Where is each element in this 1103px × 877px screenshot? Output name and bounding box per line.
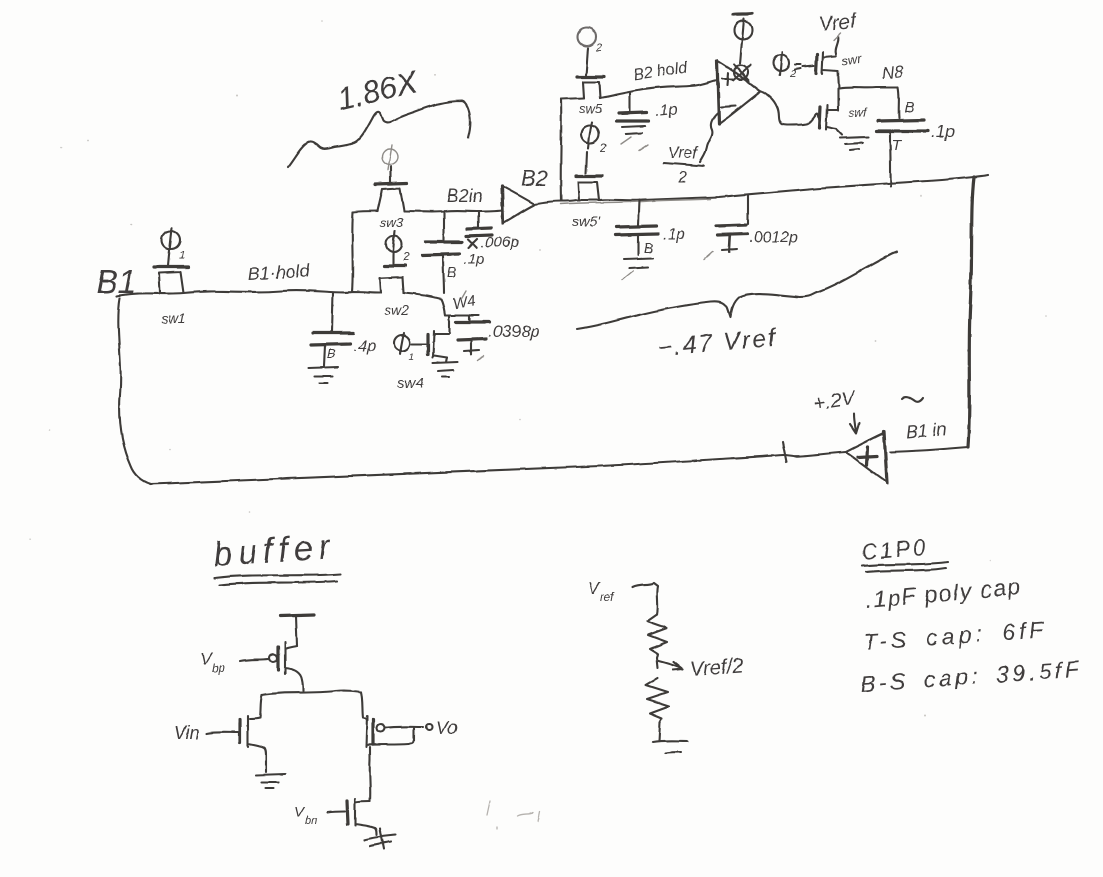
svg-text:B2in: B2in bbox=[447, 186, 483, 206]
capacitor T/B .1p label B bbox=[904, 99, 914, 116]
node B1 label bbox=[96, 263, 136, 300]
svg-text:Vin: Vin bbox=[174, 723, 200, 743]
capacitor .4p plates bbox=[311, 333, 353, 345]
cross mark x bbox=[468, 239, 477, 248]
svg-text:ref: ref bbox=[600, 590, 616, 604]
capacitor .1p on B2hold plates bbox=[616, 112, 649, 121]
wire cap bottom to long wire bbox=[890, 143, 891, 186]
svg-text:Vo: Vo bbox=[436, 718, 457, 738]
node label g bbox=[447, 264, 456, 280]
phi1 clock symbol at SW4 bbox=[394, 333, 415, 363]
svg-text:bp: bp bbox=[212, 661, 226, 675]
svg-text:1.86X: 1.86X bbox=[334, 64, 422, 117]
svg-text:swf: swf bbox=[849, 106, 869, 120]
wire SW5 row to op-amp bbox=[561, 80, 717, 99]
capacitor .1p below long wire plates bbox=[616, 226, 658, 235]
ground under SW4 bbox=[433, 358, 458, 377]
net label W4 bbox=[452, 291, 477, 313]
op-amp output wire squiggle bbox=[760, 91, 819, 125]
wire into comparator bbox=[890, 447, 968, 452]
label Vref/2 bbox=[664, 145, 704, 186]
wire Vref down to SWR bbox=[834, 33, 841, 54]
capacitor .0012p plates bbox=[716, 225, 747, 235]
value label .1p bbox=[655, 101, 679, 120]
mid node wire bbox=[657, 658, 658, 668]
note T-S cap 6fF bbox=[863, 616, 1049, 655]
note .1pF poly cap bbox=[864, 573, 1023, 613]
capacitor .4p bottom label B bbox=[327, 346, 336, 361]
SWR gate wire with ticks bbox=[795, 64, 814, 69]
wire M3 source down bbox=[369, 747, 372, 801]
transistor SW1 gate bbox=[154, 255, 189, 267]
wire right side vertical bbox=[968, 175, 988, 447]
label 1.86X gain annotation bbox=[334, 64, 422, 117]
pmos bubble M1 bbox=[269, 654, 277, 662]
SW2 label bbox=[384, 302, 409, 318]
transistor M3 body bbox=[366, 716, 414, 747]
svg-text:B2: B2 bbox=[521, 166, 548, 191]
transistor SW4 body sideways bbox=[433, 331, 448, 358]
wire SWR to node bbox=[838, 71, 839, 88]
transistor SW3 body bbox=[377, 188, 404, 211]
capacitor T/B plates bbox=[876, 120, 928, 131]
label Vin bbox=[174, 723, 200, 743]
svg-text:B: B bbox=[327, 346, 336, 361]
transistor M1 body bbox=[285, 642, 303, 691]
net label N8 bbox=[881, 62, 905, 83]
squiggle curve under 1.86X bbox=[288, 101, 470, 167]
capacitor .1p mid bottom wire bbox=[443, 255, 444, 293]
svg-text:2: 2 bbox=[402, 250, 410, 264]
wire junction down to SW4 bbox=[448, 315, 450, 333]
capacitor .1p on B2hold stem bbox=[629, 92, 631, 111]
SW2 gate bbox=[384, 257, 405, 266]
buffer B2 triangle bbox=[502, 186, 534, 223]
svg-text:1: 1 bbox=[179, 250, 185, 262]
label +.2V with arrow bbox=[812, 387, 859, 433]
svg-text:sw3: sw3 bbox=[380, 215, 404, 230]
op-amp minus wire to Vref/2 bbox=[700, 112, 719, 162]
svg-text:.006p: .006p bbox=[481, 234, 519, 251]
note B-S cap 39.5fF bbox=[860, 656, 1084, 697]
svg-text:Vref: Vref bbox=[668, 145, 699, 162]
wire SW2 to W4 node bbox=[404, 293, 479, 315]
capacitor .1p mid stem bbox=[443, 212, 445, 240]
crossed bubble on op-amp bbox=[733, 64, 750, 81]
value label .0012p bbox=[749, 229, 798, 246]
wire B2 long net to right bbox=[534, 177, 974, 204]
capacitor W4 .0398p plates bbox=[456, 315, 489, 340]
value label .1p right bbox=[931, 122, 955, 141]
transistor M3 gate bbox=[371, 719, 374, 744]
phi1 faint at SW3 bbox=[382, 145, 398, 170]
capacitor .006p stem and plates bbox=[466, 211, 492, 236]
SW4 gate bbox=[412, 334, 428, 355]
comparator triangle B1in bbox=[846, 431, 887, 483]
svg-text:sw5': sw5' bbox=[572, 213, 601, 229]
svg-text:.1pF poly cap: .1pF poly cap bbox=[864, 573, 1023, 613]
wire SWF drain up to node bbox=[837, 88, 839, 110]
phi2 clock at SW5' bbox=[581, 122, 607, 155]
svg-text:bn: bn bbox=[305, 815, 317, 827]
wire Vbn to gate bbox=[327, 811, 345, 812]
ground under M2 bbox=[256, 774, 285, 788]
svg-text:B: B bbox=[644, 240, 653, 256]
svg-text:1: 1 bbox=[409, 352, 415, 363]
svg-text:.4p: .4p bbox=[354, 338, 376, 355]
ground under divider bbox=[652, 741, 687, 753]
transistor SW5' body bbox=[578, 182, 599, 200]
svg-text:2: 2 bbox=[599, 141, 607, 155]
ground hatch under cap bbox=[621, 126, 648, 151]
op-amp U1 triangle bbox=[717, 60, 760, 124]
svg-text:2: 2 bbox=[677, 169, 687, 186]
wire node to M3 bbox=[361, 692, 367, 719]
transistor M2 gate bbox=[238, 719, 241, 743]
pmos bubble M3 bbox=[377, 724, 385, 732]
SW1 label bbox=[161, 310, 186, 326]
cap label B bbox=[638, 235, 653, 256]
svg-text:sw4: sw4 bbox=[397, 375, 424, 392]
curly brace bbox=[577, 252, 897, 329]
net label B1-hold bbox=[247, 261, 311, 284]
capacitor .0012p stem bbox=[747, 195, 749, 224]
tick mark on wire bbox=[782, 442, 786, 462]
svg-text:.0012p: .0012p bbox=[749, 229, 798, 246]
transistor SWR body sideways bbox=[822, 52, 838, 74]
phi-bar clock above op-amp bbox=[733, 14, 753, 41]
net label B2 hold bbox=[632, 59, 689, 84]
comparator output wire bbox=[783, 452, 846, 456]
resistor R2 zigzag bbox=[646, 678, 669, 722]
faint scribble marks bbox=[487, 801, 540, 829]
buffer mid node wire bbox=[262, 691, 361, 695]
value label .0398p bbox=[488, 322, 540, 341]
buffer section title bbox=[212, 527, 341, 585]
svg-text:.1p: .1p bbox=[931, 122, 955, 141]
ground under SWF bbox=[836, 129, 868, 150]
comparator plus sign bbox=[858, 447, 877, 465]
label Vo bbox=[436, 718, 457, 738]
mark under .0012p bbox=[704, 235, 737, 260]
label B1 in bbox=[905, 419, 947, 442]
svg-text:buffer: buffer bbox=[212, 527, 337, 573]
net label Vref top bbox=[818, 10, 859, 36]
svg-text:T-S cap: 6fF: T-S cap: 6fF bbox=[863, 616, 1049, 655]
value label .4p bbox=[354, 338, 376, 355]
arrow to Vref/2 bbox=[659, 661, 683, 670]
Vo terminal circle bbox=[426, 724, 432, 730]
wire Vref to resistor bbox=[632, 583, 658, 614]
wire Vbp to gate bbox=[240, 659, 268, 661]
svg-text:.1p: .1p bbox=[655, 101, 679, 120]
svg-text:sw5: sw5 bbox=[579, 101, 603, 116]
ground scribble under M4 bbox=[364, 829, 396, 849]
svg-text:T: T bbox=[892, 137, 903, 154]
svg-text:N8: N8 bbox=[881, 62, 905, 83]
phi2 clock at SW5 top bbox=[578, 28, 602, 75]
wire Vin to gate bbox=[207, 732, 238, 733]
svg-text:C1P0: C1P0 bbox=[860, 534, 929, 565]
SW5' gate bbox=[576, 152, 602, 176]
transistor SW3 gate bbox=[375, 167, 407, 184]
svg-text:Vref: Vref bbox=[818, 10, 859, 36]
SW5 label bbox=[579, 101, 603, 116]
wire B1 to SW2 bbox=[117, 291, 380, 296]
transistor M1 gate bbox=[276, 647, 279, 670]
capacitor .4p stem bbox=[332, 293, 333, 332]
svg-text:B-S cap: 39.5fF: B-S cap: 39.5fF bbox=[860, 656, 1084, 697]
svg-text:+.2V: +.2V bbox=[812, 387, 858, 415]
resistor R1 zigzag bbox=[647, 614, 667, 658]
SW5' label bbox=[572, 213, 601, 229]
heading C1P0 bbox=[860, 534, 948, 572]
wire R2 to ground bbox=[659, 722, 660, 741]
svg-text:sw1: sw1 bbox=[161, 310, 186, 326]
paper speckles bbox=[29, 20, 1047, 717]
svg-text:B: B bbox=[447, 264, 456, 280]
ground under .4p bbox=[308, 345, 338, 383]
label -.47 Vref bbox=[656, 324, 779, 362]
op-amp plus input bbox=[722, 73, 733, 85]
value label .1p under .006p bbox=[464, 251, 485, 268]
phi1 clock symbol at SW1 bbox=[162, 228, 185, 262]
ground under cap bbox=[622, 258, 653, 280]
SW3 label bbox=[380, 215, 404, 230]
transistor SW5 body bbox=[583, 82, 600, 98]
svg-text:2: 2 bbox=[595, 42, 602, 54]
transistor SWF body sideways bbox=[826, 105, 838, 130]
feedback loop left and bottom wire bbox=[118, 298, 783, 484]
transistor SW2 body bbox=[380, 277, 404, 293]
svg-text:B1 in: B1 in bbox=[905, 419, 947, 442]
label Vbp bbox=[200, 649, 226, 675]
tilde mark bbox=[902, 397, 923, 402]
transistor M4 gate bbox=[347, 801, 348, 824]
svg-text:Vref/2: Vref/2 bbox=[690, 655, 744, 681]
phi2 label at SWR gate bbox=[773, 52, 796, 80]
svg-text:B1·hold: B1·hold bbox=[247, 261, 311, 284]
transistor M4 body bbox=[355, 799, 377, 835]
SW5 gate bbox=[577, 75, 604, 78]
svg-text:B: B bbox=[904, 99, 914, 116]
capacitor .1p mid plates bbox=[423, 242, 462, 255]
op-amp minus input bbox=[721, 106, 736, 107]
wire SW3 row bbox=[353, 210, 502, 212]
phi2 clock symbol at SW2 bbox=[386, 231, 410, 264]
svg-text:B2 hold: B2 hold bbox=[632, 59, 689, 84]
wire gate to Vo bbox=[385, 727, 423, 728]
wire phi-bar to bubble bbox=[740, 41, 742, 63]
svg-text:.1p: .1p bbox=[663, 226, 685, 243]
net N8 wire bbox=[839, 87, 899, 118]
label Vbn bbox=[294, 804, 317, 827]
capacitor T label bbox=[890, 132, 903, 154]
svg-text:sw2: sw2 bbox=[384, 302, 409, 318]
resistor divider Vref label bbox=[588, 579, 616, 604]
svg-text:−.47 Vref: −.47 Vref bbox=[656, 324, 779, 362]
vertical wire SW3-left to B1 wire bbox=[352, 212, 353, 292]
wire node down to M2 bbox=[250, 695, 262, 719]
faint label Vref/2 bbox=[690, 655, 744, 681]
doubled stroke on long wire bbox=[560, 199, 710, 204]
transistor SW1 body bbox=[159, 272, 184, 293]
SWR gate bar bbox=[816, 54, 817, 73]
svg-text:.1p: .1p bbox=[464, 251, 485, 268]
svg-text:swr: swr bbox=[840, 51, 863, 69]
SWF label bbox=[849, 106, 869, 120]
value label .006p bbox=[481, 234, 519, 251]
capacitor .1p below long wire stem bbox=[638, 200, 639, 225]
net label B2in bbox=[447, 186, 483, 206]
capacitor W4 bottom mark bbox=[464, 340, 484, 360]
value label .1p bbox=[663, 226, 685, 243]
transistor SWF gate bar bbox=[819, 107, 820, 128]
vertical wire B2 up to SW5 bbox=[560, 99, 563, 201]
transistor M2 body bbox=[248, 716, 266, 772]
SWR label bbox=[840, 51, 863, 69]
svg-text:.0398p: .0398p bbox=[488, 322, 540, 341]
B2 output label bbox=[521, 166, 548, 191]
VDD T bar buffer bbox=[280, 615, 314, 646]
SW4 label bbox=[397, 375, 424, 392]
